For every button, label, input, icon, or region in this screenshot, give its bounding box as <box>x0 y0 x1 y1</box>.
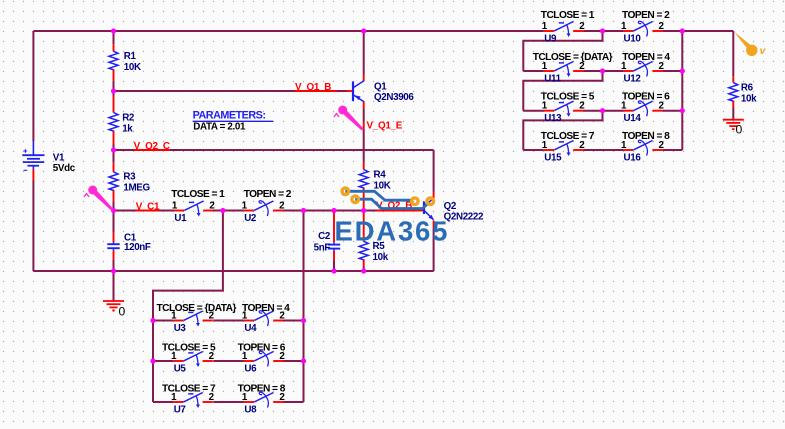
net label V_Q1_B <box>295 82 337 93</box>
wire: R6 column from top-right corner <box>732 31 734 120</box>
wire: Q2 collector column <box>433 150 435 192</box>
svg-text:PARAMETERS:: PARAMETERS: <box>193 110 266 122</box>
svg-text:TCLOSE = 5: TCLOSE = 5 <box>541 92 595 103</box>
wire: bracket from U1-U2 node down to lower block <box>153 211 223 403</box>
switch U15 TCLOSE = 7 <box>541 131 595 164</box>
svg-text:V1: V1 <box>53 153 65 164</box>
junction dots lower block row U3-U4 <box>150 318 306 323</box>
switch U11 TCLOSE = {DATA} <box>533 52 613 84</box>
svg-text:R4: R4 <box>374 169 387 180</box>
svg-text:10K: 10K <box>124 62 141 73</box>
voltage probe marker at Q1 emitter <box>334 106 364 131</box>
svg-text:C2: C2 <box>318 231 331 242</box>
resistor R5 10k <box>359 241 388 263</box>
junction dots lower block row U5-U6 <box>150 358 306 363</box>
wire: lower block right vertical <box>303 211 305 403</box>
junction dots on top rail <box>111 28 685 33</box>
svg-text:V_Q2_C: V_Q2_C <box>134 141 170 152</box>
wire: lower block row U7-U8 <box>153 401 304 403</box>
svg-text:U5: U5 <box>174 363 187 374</box>
wire: V_Q1_B net from R1 bottom to Q1 base <box>114 90 347 92</box>
switch U14 TOPEN = 6 <box>621 92 670 124</box>
svg-text:U12: U12 <box>624 73 642 84</box>
switch U9 TCLOSE = 1 <box>541 10 595 44</box>
wire: C2 bottom to bottom rail <box>333 261 335 271</box>
capacitor C1 120nF <box>107 233 151 253</box>
wire: Q2 emitter column to bottom rail <box>433 229 435 272</box>
svg-text:R3: R3 <box>123 172 136 183</box>
svg-text:U14: U14 <box>624 113 642 124</box>
resistor R3 1MEG <box>109 172 150 194</box>
ground 0 below C1 <box>103 301 126 319</box>
svg-text:U8: U8 <box>244 404 257 415</box>
wire: R1 column stubs <box>113 31 115 91</box>
transistor Q2 Q2N2222 NPN <box>415 192 484 229</box>
svg-text:R2: R2 <box>122 112 135 123</box>
switch U16 TOPEN = 8 <box>621 131 670 164</box>
wire: right switch block row 2 <box>523 70 682 72</box>
EDA365 watermark logo trace <box>345 191 411 200</box>
svg-text:U3: U3 <box>174 323 187 334</box>
svg-text:Q2N3906: Q2N3906 <box>374 92 414 103</box>
wire: R3 pin stubs red <box>113 163 115 202</box>
switch U2 TOPEN = 2 <box>242 189 292 224</box>
svg-text:TOPEN = 2: TOPEN = 2 <box>622 10 670 21</box>
wire: R5 pin stubs red <box>363 211 365 267</box>
wire: right block bracket row3 to row4 <box>523 111 602 150</box>
svg-text:U2: U2 <box>244 213 257 224</box>
capacitor C2 5nF <box>314 231 341 253</box>
svg-text:U13: U13 <box>544 113 562 124</box>
wire: R5 bottom to bottom rail <box>363 267 365 272</box>
wire: right switch block row 3 <box>523 110 682 112</box>
svg-text:U10: U10 <box>624 33 642 44</box>
svg-text:TCLOSE = 1: TCLOSE = 1 <box>541 10 595 21</box>
resistor R2 1k <box>109 112 135 134</box>
junction node R1 bottom <box>111 88 116 93</box>
wire: lower block row U3-U4 <box>153 320 304 322</box>
resistor R6 10k <box>729 82 757 104</box>
svg-text:TCLOSE = 1: TCLOSE = 1 <box>171 189 225 200</box>
svg-text:Q2N2222: Q2N2222 <box>444 212 484 223</box>
svg-text:EDA365: EDA365 <box>335 216 450 247</box>
svg-text:1MEG: 1MEG <box>123 183 150 194</box>
switch U6 TOPEN = 6 <box>238 342 286 374</box>
switch U5 TCLOSE = 5 <box>162 342 216 374</box>
switch U3 TCLOSE = {DATA} <box>157 303 237 334</box>
svg-text:120nF: 120nF <box>124 242 151 253</box>
switch U10 TOPEN = 2 <box>621 10 670 44</box>
svg-text:V_Q1_B: V_Q1_B <box>295 82 331 93</box>
svg-text:0: 0 <box>119 305 126 319</box>
wire: R4 pin stubs red <box>363 162 365 211</box>
junction dots on bottom rail <box>111 268 366 273</box>
svg-text:DATA = 2.01: DATA = 2.01 <box>193 121 246 132</box>
svg-text:U7: U7 <box>174 404 187 415</box>
switch U7 TCLOSE = 7 <box>162 383 216 415</box>
wire: V_Q2_C net from R2 bottom to Q2 collector column <box>114 149 434 151</box>
parameters text block DATA = 2.01 <box>193 110 273 133</box>
svg-text:V_Q1_E: V_Q1_E <box>367 121 403 132</box>
wire: right switch block row 4 <box>523 149 682 151</box>
wire: R3 column <box>113 150 115 211</box>
junction dots on V_C1 row <box>111 208 366 213</box>
svg-text:U15: U15 <box>544 152 562 163</box>
wire: lower block row U5-U6 <box>153 360 304 362</box>
svg-text:5Vdc: 5Vdc <box>53 163 76 174</box>
svg-text:U9: U9 <box>544 33 557 44</box>
svg-text:10k: 10k <box>373 252 389 263</box>
svg-text:U1: U1 <box>174 213 187 224</box>
wire: right block bracket row2 to row3 <box>523 71 602 111</box>
resistor R4 10K <box>359 169 390 191</box>
switch U8 TOPEN = 8 <box>238 383 286 415</box>
voltage source V1 5Vdc <box>22 141 75 181</box>
wire: bottom rail <box>33 270 433 272</box>
ground 0 below R6 <box>723 120 744 137</box>
svg-text:U11: U11 <box>544 73 561 84</box>
wire: V_C1 row through U1 U2 toward C2 <box>114 210 377 212</box>
wire: R2 column <box>113 91 115 150</box>
wire: ground stub below bottom rail <box>113 271 115 301</box>
wire: top rail through U9 U10 to right corner <box>33 30 733 32</box>
junction dots right block row 2 <box>600 68 685 73</box>
net label V_Q2_C <box>134 141 170 152</box>
svg-text:1k: 1k <box>122 123 133 134</box>
svg-text:TOPEN = 2: TOPEN = 2 <box>244 189 292 200</box>
wire: right block bracket row1 to row2 <box>523 31 602 71</box>
wire: R1 pin stubs red <box>113 44 115 80</box>
wire: Q1 emitter column down to R4 <box>363 109 365 162</box>
svg-text:TCLOSE = {DATA}: TCLOSE = {DATA} <box>157 303 237 314</box>
switch U1 TCLOSE = 1 <box>171 189 225 224</box>
net label V_Q2_B <box>376 201 415 212</box>
svg-text:5nF: 5nF <box>314 242 331 253</box>
net label V_Q1_E <box>364 121 403 132</box>
wire: Q1 collector column to top rail <box>363 31 365 75</box>
svg-text:V_C1: V_C1 <box>136 202 160 213</box>
switch U13 TCLOSE = 5 <box>541 92 595 124</box>
voltage probe marker orange at top right <box>734 32 767 57</box>
svg-text:Q2: Q2 <box>444 201 457 212</box>
wire: left rail with V1 gap <box>32 31 34 271</box>
switch U4 TOPEN = 4 <box>242 303 290 334</box>
transistor Q1 Q2N3906 PNP <box>347 75 415 110</box>
svg-text:R6: R6 <box>741 82 754 93</box>
svg-text:Q1: Q1 <box>374 82 387 93</box>
junction node R2 bottom V_Q2_C <box>111 147 116 152</box>
svg-text:TCLOSE = 7: TCLOSE = 7 <box>541 131 595 142</box>
svg-text:10K: 10K <box>374 180 391 191</box>
voltage probe marker at V_C1 node <box>84 186 114 211</box>
svg-text:U6: U6 <box>244 363 257 374</box>
resistor R1 10K <box>109 51 141 73</box>
net label V_C1 <box>136 202 160 213</box>
svg-text:10k: 10k <box>741 93 757 104</box>
wire: C2 stubs red <box>333 211 335 262</box>
wire: right block common right vertical <box>681 31 683 150</box>
wire: C1 column <box>113 211 115 272</box>
svg-text:U16: U16 <box>624 152 642 163</box>
wire: R2 pin stubs red <box>113 96 115 145</box>
junction dots right block row 3 <box>600 108 685 113</box>
svg-text:U4: U4 <box>244 323 257 334</box>
svg-text:R1: R1 <box>124 51 137 62</box>
wire: R6 pin stubs red <box>732 76 734 107</box>
wire: C1 pin stubs red <box>113 232 115 260</box>
switch U12 TOPEN = 4 <box>621 52 670 84</box>
EDA365 watermark logo pads <box>342 188 434 205</box>
svg-text:0: 0 <box>736 123 743 137</box>
